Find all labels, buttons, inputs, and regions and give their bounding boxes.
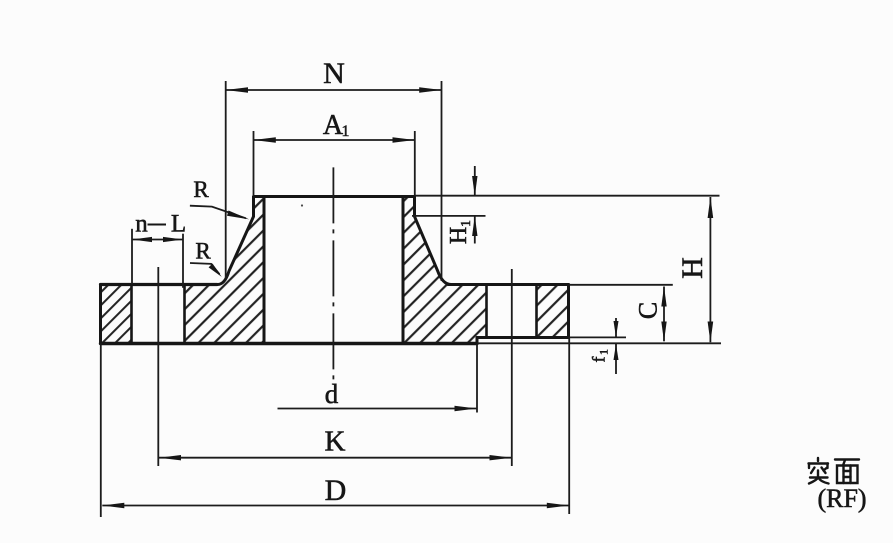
hatched section: left hub and flange between bolt hole and bore xyxy=(185,197,265,344)
D extension left xyxy=(100,344,102,518)
f1 upper extension line xyxy=(569,336,627,338)
flange ring bottom right of step xyxy=(477,336,569,339)
neck top face xyxy=(254,195,415,198)
N arrow right xyxy=(419,87,441,93)
f1 arrow lower (points up) xyxy=(614,344,619,360)
C arrow top (points up) xyxy=(661,286,666,306)
H1 dimension line upper part xyxy=(474,166,476,196)
flange outline group (thick) xyxy=(101,197,569,344)
svg-text:1: 1 xyxy=(459,220,474,227)
R lower leader line xyxy=(190,263,220,274)
A1 arrow right xyxy=(393,137,415,143)
svg-text:R: R xyxy=(193,177,209,202)
N extension right xyxy=(441,81,443,281)
svg-text:1: 1 xyxy=(342,123,350,140)
left bolt hole left edge xyxy=(130,285,133,344)
label C (rotated) xyxy=(634,302,663,319)
flange right edge xyxy=(567,285,570,338)
svg-text:C: C xyxy=(634,302,663,319)
A1 extension right xyxy=(414,131,416,195)
left bolt hole centerline / K extension xyxy=(157,267,159,466)
d dimension line xyxy=(278,408,477,410)
main vertical centerline xyxy=(332,167,334,381)
label H1 (rotated) xyxy=(446,220,474,244)
svg-text:K: K xyxy=(325,426,346,458)
A1 arrow left xyxy=(254,137,276,143)
flange bottom / raised face bottom xyxy=(101,342,478,345)
right neck outer wall + taper + fillet xyxy=(415,197,452,285)
H1 dimension line lower part xyxy=(474,216,476,244)
neck top extension line to H xyxy=(415,195,720,197)
character 突 xyxy=(817,458,819,461)
svg-text:(RF): (RF) xyxy=(817,484,866,513)
D arrow right xyxy=(547,503,569,508)
H dimension line xyxy=(709,197,711,342)
right bolt hole centerline / K extension xyxy=(511,269,513,466)
hatched section: right flange rim block xyxy=(537,285,569,338)
svg-text:f: f xyxy=(589,357,609,363)
hatched section: right hub and flange between bore and bolt hole xyxy=(403,197,487,344)
K arrow left xyxy=(159,455,181,460)
label H (rotated) xyxy=(676,257,709,279)
flange top face right xyxy=(448,283,569,286)
left neck outer wall + taper + fillet xyxy=(218,197,254,285)
n-L dimension line xyxy=(132,239,183,241)
C dimension line xyxy=(663,287,665,342)
C arrow bottom (points down) xyxy=(661,322,666,342)
D extension right xyxy=(568,338,570,515)
svg-text:d: d xyxy=(325,379,339,409)
N extension left xyxy=(225,81,227,278)
f1 dimension line lower part xyxy=(615,344,617,374)
label f1 (rotated) xyxy=(589,349,611,363)
d extension right xyxy=(476,344,478,413)
svg-text:1: 1 xyxy=(597,349,611,355)
H1 arrow lower (points up) xyxy=(472,216,477,236)
A1 dimension line xyxy=(254,139,415,141)
f1 dimension line upper part xyxy=(615,318,617,337)
R upper leader line xyxy=(190,206,246,219)
bottom extension line to H and f1 xyxy=(477,342,721,344)
bore left wall xyxy=(263,197,266,344)
flange top face left xyxy=(101,283,218,286)
n-L arrow right xyxy=(163,237,183,242)
H arrow top (points up) xyxy=(708,197,714,218)
right bolt hole left edge xyxy=(485,285,488,338)
thin lines: dimensions, extensions, centerlines xyxy=(101,81,721,517)
left bolt hole right edge xyxy=(183,285,186,344)
A1 extension left xyxy=(253,131,255,195)
R upper leader arrowhead xyxy=(227,211,249,220)
C top extension line xyxy=(569,284,673,286)
flange left edge xyxy=(99,285,102,344)
n-L extension right xyxy=(182,234,184,288)
n-L extension left xyxy=(131,229,133,284)
svg-text:L: L xyxy=(171,211,186,238)
f1 arrow upper (points down) xyxy=(614,321,619,337)
D dimension line xyxy=(102,505,569,507)
svg-text:H: H xyxy=(676,257,709,279)
svg-text:H: H xyxy=(446,227,472,244)
scan speck xyxy=(301,204,303,206)
H arrow bottom (points down) xyxy=(708,322,714,343)
H1 arrow upper (points down) xyxy=(472,176,477,196)
svg-text:N: N xyxy=(323,57,345,90)
hatched section: left flange rim block xyxy=(101,285,132,344)
raised face step xyxy=(476,338,479,344)
n-L arrow left xyxy=(132,237,152,242)
K dimension line xyxy=(159,457,511,459)
Chinese text 突面 drawn as strokes xyxy=(809,458,860,484)
K arrow right xyxy=(490,455,512,460)
D arrow left xyxy=(102,503,124,508)
R lower leader arrowhead xyxy=(209,264,222,277)
H1 lower reference line xyxy=(412,215,486,217)
N dimension line xyxy=(226,89,442,91)
svg-text:R: R xyxy=(195,239,211,264)
right bolt hole right edge xyxy=(535,285,538,338)
d arrow right xyxy=(455,406,477,411)
svg-text:D: D xyxy=(325,474,347,507)
arrowheads xyxy=(102,87,713,508)
svg-text:n: n xyxy=(135,211,148,238)
character 面 xyxy=(835,458,859,460)
bolt hole edges (medium) xyxy=(132,285,537,344)
N arrow left xyxy=(226,87,248,93)
bore right wall xyxy=(402,197,405,344)
